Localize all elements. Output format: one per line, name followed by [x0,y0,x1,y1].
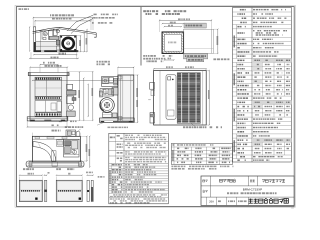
panel 1 louver slots [21,190,22,192]
view B right dim lines [79,72,81,120]
opening right dim [217,29,219,53]
maintenance space grey box [184,54,208,59]
drawing frame border [16,7,294,207]
view E outer rect [154,71,207,126]
panel 1 side view strip [44,180,46,201]
view C bottom flange panel [26,161,84,167]
view C top dim [52,130,61,132]
view D main body [118,75,134,121]
drawing title gaikeisunpozu [220,179,236,182]
opening top dims [160,20,212,22]
50 bracket dim [165,59,174,61]
view A plan view top dim lines [50,14,74,16]
view B bottom dim text [59,121,77,123]
view A plate right tab [94,33,96,37]
opening title [143,10,186,12]
view A top components valves [43,32,47,36]
title block row2 cells [210,186,212,197]
units note [19,8,29,10]
view D bottom leader note [108,127,129,129]
drain space grey box [184,23,206,28]
view E right dims [208,71,210,126]
view A body grey wash [36,42,60,50]
panel titles [23,168,34,170]
footnote under tables [171,166,233,168]
installation notes table [109,133,169,204]
view C center small rects [56,140,63,146]
view E louver stripes [178,72,200,74]
view E left protruding boxes [150,83,155,90]
view B lower panel [35,101,62,113]
view D top assembly box [102,77,118,87]
view D mid connectors [112,88,118,95]
notes table bottom dense rows [109,196,169,198]
front panel 2 [56,180,82,201]
section divider line [140,7,142,66]
view E inner slot strip [166,75,176,119]
view E bottom leader text [192,124,195,127]
view B top dim text [43,62,55,64]
label meisho [203,180,208,182]
view A mounting flange plate [33,27,97,33]
view A right dims [80,36,82,52]
view B bottom textured band [35,113,62,117]
view D fan lower bits [102,113,111,118]
decorative panel 1 front [19,180,42,201]
view A bottom dark band [34,50,79,52]
product name yokushitsu kanso-ki [262,179,285,182]
view A blower ring [63,38,74,49]
view E leader grey box [187,58,204,62]
view D fan motor mount [100,89,114,96]
svg-text:BRM-C733XP: BRM-C733XP [243,187,262,191]
title block bottom row cells [206,197,208,205]
opening square thick [162,32,183,53]
specification table [233,8,292,163]
panel dim lines [19,174,42,176]
view C outer body [32,136,80,162]
view B top flange [28,73,69,76]
view B bottom flange [27,117,68,121]
view A left flange bar [34,27,36,52]
view A bits left of fan [56,40,60,44]
outer sheet edge [15,5,295,207]
view A main body [36,30,60,32]
svg-text:26A: 26A [209,200,214,204]
panel 2 side strips [87,180,89,201]
view D bottom bracket [112,113,117,117]
view B heat exchanger panel [35,80,62,97]
Rinnai company name [249,199,289,204]
view C right dim [86,136,88,161]
view B main body [30,76,67,122]
view E top dim [154,68,207,70]
title block row1 cells [210,176,212,186]
view D bottom flange [100,118,135,122]
title block [201,176,294,205]
fold mark bottom right [291,207,294,209]
view D right dim [137,75,139,122]
panel 2 louver slots [58,190,59,192]
panel 2 corner dot [79,198,81,200]
opening bottom note text [143,55,172,57]
view A leader labels filter [94,14,119,16]
view C right components [64,139,79,157]
view D fan circle [100,98,115,113]
view A bottom dims [34,54,77,56]
panel 1 corner dot [35,198,37,200]
view B top textured band [35,77,62,80]
view B right side pipes [67,84,73,89]
view A leader lines [67,15,93,31]
view E louver hatch block [177,73,200,123]
power consumption table [171,143,232,164]
view B mid louver band [35,97,62,100]
label hinmei [250,180,255,182]
label katashiki [203,190,208,192]
view C roof duct adapter [65,126,83,128]
view A fan housing [60,36,76,52]
view C duct elbow [33,142,56,162]
view D top leader text [97,61,110,63]
unit outline square [184,29,214,53]
